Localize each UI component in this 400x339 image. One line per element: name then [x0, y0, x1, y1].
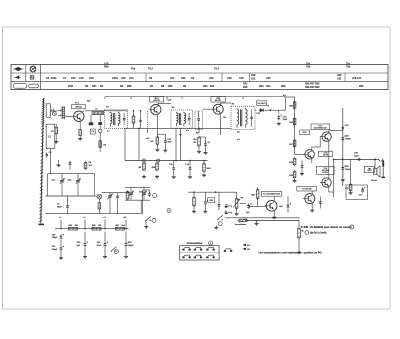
- symbol diode bowtie: [13, 67, 23, 71]
- svg-text:HPout: HPout: [371, 179, 377, 182]
- capacitor below node: [341, 159, 352, 181]
- symbol capacitor row2: [30, 75, 35, 79]
- svg-text:1k5: 1k5: [122, 225, 125, 227]
- resistor ladder low1: [289, 157, 296, 167]
- svg-text:AF125: AF125: [75, 105, 82, 108]
- svg-text:C31: C31: [337, 78, 342, 81]
- transistor T1.6: [305, 150, 314, 159]
- wire left column down: [50, 124, 58, 174]
- svg-text:C13: C13: [89, 77, 94, 80]
- capacitor C34: [77, 232, 88, 259]
- svg-text:AC127&AC132: AC127&AC132: [314, 126, 327, 129]
- capacitor C1 39pF: [57, 196, 69, 214]
- bottom tuning bus: [45, 213, 141, 215]
- transistor T1.1 label: [72, 102, 86, 108]
- resistor R25 ladder: [289, 117, 296, 127]
- resistor R5 under T1.2: [151, 126, 160, 152]
- svg-text:2k2: 2k2: [193, 139, 196, 141]
- contact glyph 5: [194, 257, 196, 258]
- transistor T1.8 label: [317, 166, 335, 174]
- thermistor on bus: [235, 218, 249, 226]
- svg-text:C16: C16: [121, 77, 126, 80]
- mid bus hanging C16: [169, 161, 176, 179]
- header row2 labels: [46, 74, 362, 80]
- capacitor C32: [124, 232, 134, 259]
- resistor R38b: [251, 187, 259, 206]
- legend PO GO: [244, 244, 251, 251]
- svg-text:4,5: 4,5: [237, 131, 240, 134]
- components between can1 and T1.2: [132, 111, 147, 129]
- svg-text:L26-L27: L26-L27: [352, 77, 362, 80]
- svg-text:R10: R10: [203, 85, 208, 88]
- transistor T1.7: [320, 132, 335, 141]
- svg-text:R35: R35: [69, 225, 72, 227]
- transistor T1.1: [74, 111, 84, 121]
- boxlabel C4: [90, 129, 95, 134]
- micro jack glyphs: [225, 204, 232, 213]
- output node vertical: [333, 159, 334, 197]
- svg-text:OC75: OC75: [323, 155, 329, 157]
- oscillator node circle: [95, 194, 102, 213]
- svg-text:R38: R38: [127, 85, 132, 88]
- bus under T1.4: [225, 213, 300, 218]
- mid bus hanging R42: [202, 161, 211, 177]
- note text line2: [305, 231, 327, 235]
- svg-text:39pF: 39pF: [57, 206, 63, 208]
- speaker label box: [365, 167, 375, 173]
- svg-text:PO8: PO8: [68, 85, 74, 88]
- svg-text:R9: R9: [196, 133, 198, 135]
- svg-text:T5.2: T5.2: [214, 68, 219, 71]
- transistor T1.7 label: [311, 124, 330, 130]
- decoupling resistor 1: [67, 225, 79, 230]
- svg-text:4k7: 4k7: [146, 137, 149, 140]
- main wire y111: [85, 110, 127, 112]
- tuning bus mid: [0, 0, 1, 1]
- value labels sprinkle: [106, 103, 270, 144]
- svg-text:C15a: C15a: [51, 77, 57, 80]
- switch with circle right: [214, 215, 223, 229]
- resistor R39: [297, 227, 303, 254]
- note text line1: [301, 225, 354, 229]
- top supply rail: [105, 97, 286, 100]
- wire T1.2 emitter down: [156, 114, 158, 126]
- boxlabel R30: [300, 130, 310, 135]
- decoupling resistor 2: [90, 225, 102, 230]
- label 5uF near T1.2: [166, 97, 172, 102]
- symbol diode small row2: [14, 76, 20, 79]
- wire can2 to T1.3: [203, 108, 213, 110]
- transistor T1.8: [322, 178, 331, 187]
- components below output: [345, 159, 368, 199]
- svg-text:R37: R37: [92, 85, 97, 88]
- svg-text:AF126: AF126: [153, 99, 160, 102]
- header row3 labels: [68, 83, 364, 90]
- second trimmer bank: [125, 187, 150, 213]
- output rail x342.8: [342, 108, 344, 186]
- transistor T1.2 label: [149, 97, 163, 102]
- IF can bottom bus: [125, 127, 231, 129]
- svg-text:0,1: 0,1: [208, 142, 211, 144]
- mid bus hanging R6: [139, 162, 146, 179]
- resistor R40 row: [194, 136, 201, 154]
- transistor T1.9 label: [297, 186, 317, 191]
- contact glyph 1: [183, 249, 185, 250]
- svg-text:R40: R40: [168, 85, 173, 88]
- header table frame: [11, 65, 388, 90]
- svg-text:C10: C10: [79, 77, 84, 80]
- wire drops from IF stages: [125, 128, 199, 160]
- wire with arrow mid: [180, 128, 182, 160]
- node x100: [99, 115, 102, 152]
- capacitor 5uF out: [279, 197, 291, 213]
- svg-text:10µF: 10µF: [354, 155, 360, 157]
- transistor T1.3 label: [211, 97, 225, 102]
- node output: [342, 159, 343, 160]
- component under node: [99, 139, 107, 149]
- wire T1.7 emitter chain: [329, 140, 334, 192]
- ladder rail x294.6: [294, 97, 296, 155]
- connector strip ground bar: [38, 222, 44, 224]
- wire T1.6 leads: [295, 137, 321, 163]
- wire top to output rail: [295, 96, 343, 98]
- svg-text:Les commutateurs sont représen: Les commutateurs sont représentés : posi…: [259, 252, 323, 255]
- contact glyph 4: [183, 257, 185, 258]
- wire to T1.4 base: [249, 205, 266, 207]
- svg-text:R39 : de 6k8à10k pour obtenir: R39 : de 6k8à10k pour obtenir un courant: [304, 226, 352, 229]
- antenna coil L1: [45, 104, 54, 117]
- loudspeaker: [371, 159, 380, 182]
- svg-text:AC117: AC117: [322, 171, 328, 174]
- supply stub labels: [59, 216, 128, 229]
- svg-text:100µF: 100µF: [345, 138, 352, 140]
- svg-text:T1.9 AC128: T1.9 AC128: [302, 187, 312, 190]
- decoupling resistor 3: [114, 225, 126, 230]
- wire bus2 to bus3: [48, 174, 95, 196]
- wire D1 to node: [265, 109, 286, 111]
- ferrite tuning coil: [58, 106, 65, 119]
- svg-text:R31: R31: [209, 200, 212, 202]
- capacitor C28: [341, 136, 351, 142]
- boxlabel R31: [208, 198, 215, 203]
- svg-text:C17: C17: [170, 77, 175, 80]
- junction dots: [133, 110, 221, 162]
- capacitor C20 row: [199, 137, 208, 154]
- small caps right of ladder: [300, 161, 304, 176]
- wire T1.9 leads: [310, 191, 314, 212]
- coil L2 box: [45, 124, 54, 148]
- wire T1.1 collector: [82, 111, 84, 113]
- capacitor after T1.9: [319, 197, 322, 209]
- capacitor with circled node: [143, 190, 157, 215]
- resistor ladder low2: [289, 158, 296, 182]
- capacitor C30 series: [354, 153, 362, 161]
- svg-text:125µF: 125µF: [52, 237, 58, 239]
- transistor T1.9: [303, 194, 315, 204]
- wire T1.1 emitter: [79, 121, 81, 128]
- svg-text:C21: C21: [251, 78, 256, 81]
- circled P lower: [167, 209, 171, 213]
- mid bus hanging C19: [185, 161, 192, 179]
- diode D1: [259, 109, 265, 111]
- contact glyph 6: [207, 257, 209, 258]
- resistor R3 under T1.1: [78, 128, 82, 140]
- wire tuning top link: [102, 192, 128, 197]
- capacitor C small: [218, 192, 221, 210]
- svg-text:GO: GO: [247, 249, 251, 251]
- contact glyph outside: [224, 250, 226, 251]
- contact glyph 3: [207, 249, 209, 250]
- transistor T1.3: [213, 104, 223, 114]
- svg-text:T5b: T5b: [306, 65, 311, 68]
- capacitor C36: [52, 232, 64, 240]
- svg-text:R24: R24: [259, 85, 264, 88]
- svg-text:R11: R11: [210, 85, 215, 88]
- edge connector strip: [39, 98, 45, 222]
- svg-text:M3: M3: [232, 103, 235, 105]
- svg-text:R28 R34 R30: R28 R34 R30: [305, 86, 320, 89]
- svg-text:150: 150: [98, 225, 101, 227]
- wire cap to base: [251, 205, 266, 207]
- trimmer C6: [108, 193, 113, 214]
- wire T1.3 collector: [220, 103, 231, 106]
- svg-text:R36: R36: [92, 225, 95, 227]
- svg-text:T5.2: T5.2: [148, 68, 153, 71]
- svg-text:thermistance: thermistance: [235, 223, 246, 226]
- wire bottom center: [245, 220, 299, 227]
- items above tuning box: [57, 160, 92, 170]
- resistor R23 ladder: [289, 100, 296, 110]
- svg-text:Commutateur: Commutateur: [187, 242, 203, 245]
- symbol meter circle: [30, 65, 36, 72]
- capacitor C35: [52, 240, 64, 260]
- svg-text:10µF: 10µF: [283, 119, 289, 121]
- node circle antenna: [53, 112, 57, 116]
- svg-text:5µF: 5µF: [168, 100, 172, 102]
- capacitor C pol: [203, 192, 208, 213]
- wire T1.7 leads: [329, 130, 343, 133]
- volume pot P1: [233, 192, 244, 215]
- wire can1 to T1.2: [150, 109, 153, 111]
- trimmer C3b: [68, 174, 81, 189]
- svg-text:D1 OA70: D1 OA70: [258, 102, 266, 105]
- wire can3 out: [255, 109, 256, 111]
- wire node to ladder: [283, 94, 295, 110]
- transistor T1.2: [151, 105, 161, 115]
- capacitor 5uF coupling: [240, 203, 252, 214]
- output wire horizontal: [334, 158, 379, 160]
- switch lower left: [144, 216, 156, 228]
- resistor right of tuning: [126, 190, 129, 213]
- svg-text:R37: R37: [116, 225, 119, 227]
- transistor T1.6 label: [319, 151, 333, 156]
- blob pad: [89, 123, 93, 125]
- transistor T1.4 label: [261, 191, 281, 196]
- svg-text:AF127: AF127: [215, 99, 222, 102]
- ground stub bottom: [255, 220, 259, 225]
- svg-text:C19: C19: [239, 77, 244, 80]
- transistor T1.4: [266, 200, 277, 211]
- svg-text:R32: R32: [359, 85, 364, 88]
- jack symbol: [379, 159, 385, 178]
- svg-text:C15: C15: [71, 77, 76, 80]
- coil L3 under wire: [92, 108, 104, 114]
- resistor R27 ladder: [289, 139, 296, 149]
- capacitor C25 small: [342, 125, 350, 131]
- svg-text:100µF: 100µF: [128, 245, 134, 247]
- svg-text:C14: C14: [129, 77, 134, 80]
- svg-text:M1: M1: [106, 107, 109, 109]
- bus y192: [188, 192, 237, 193]
- output node right: [374, 159, 376, 161]
- tuning bus3: [45, 195, 94, 197]
- svg-text:R4a: R4a: [266, 85, 271, 88]
- tuning bus top: [48, 173, 96, 175]
- trimmer C3a: [52, 174, 65, 189]
- wire drop x89: [90, 115, 92, 123]
- svg-text:220: 220: [75, 225, 78, 227]
- svg-text:100µF: 100µF: [52, 249, 58, 251]
- svg-text:R23: R23: [243, 86, 248, 89]
- drop to C22: [278, 110, 280, 113]
- IF transformer can 2: [171, 110, 193, 128]
- svg-text:(de 0,5 à 1mA): (de 0,5 à 1mA): [310, 232, 327, 235]
- commutateur title: [187, 241, 213, 245]
- contact glyph 2: [194, 249, 196, 250]
- svg-text:F5a: F5a: [131, 68, 136, 71]
- wire T1.4 leads: [272, 196, 276, 219]
- svg-text:R2b: R2b: [281, 85, 286, 88]
- svg-text:C18: C18: [227, 77, 232, 80]
- svg-text:T1.4 AC126&AC125: T1.4 AC126&AC125: [263, 192, 280, 195]
- symbol coil box row3 left: [13, 84, 27, 90]
- svg-text:PO: PO: [247, 245, 250, 247]
- IF transformer can 3: [231, 106, 255, 129]
- svg-text:T1.1: T1.1: [75, 102, 80, 104]
- connector box: [180, 246, 219, 260]
- capacitor C1a: [46, 152, 53, 158]
- wire T1.3 emitter: [219, 113, 221, 135]
- mid bus y160.5: [125, 160, 208, 162]
- mid bus hanging R38: [152, 162, 159, 179]
- power bus: [55, 228, 129, 230]
- header row1 labels: [104, 62, 351, 70]
- svg-text:C1b: C1b: [209, 77, 214, 80]
- wire T1.2 collector: [158, 103, 171, 106]
- capacitor C33: [97, 232, 108, 259]
- switch power: [111, 247, 119, 255]
- diode D1 label: [257, 101, 267, 106]
- power bus nodes: [60, 228, 126, 229]
- svg-text:T5b: T5b: [346, 65, 351, 68]
- svg-text:R5d: R5d: [104, 66, 109, 69]
- wire antenna to T1.1 base: [50, 111, 72, 116]
- IF transformer can 1: [105, 110, 128, 129]
- svg-text:1k2: 1k2: [89, 165, 92, 167]
- symbol coil box row3 right: [29, 84, 39, 88]
- svg-text:C21: C21: [223, 117, 226, 119]
- node after D1: [270, 110, 271, 111]
- capacitor C6b: [116, 193, 119, 214]
- svg-text:C20: C20: [181, 77, 186, 80]
- svg-text:47µF: 47µF: [97, 244, 102, 247]
- resistor R1: [51, 126, 58, 136]
- capacitor C22: [277, 115, 288, 126]
- svg-text:C23: C23: [256, 113, 259, 115]
- svg-text:M2: M2: [172, 107, 175, 109]
- resistor R13: [192, 192, 196, 213]
- svg-text:C25: C25: [266, 77, 271, 80]
- dashed box small: [195, 111, 203, 129]
- capacitor C15 under T1.2: [157, 134, 172, 152]
- svg-text:C15a: C15a: [112, 77, 118, 80]
- svg-text:2,5Ω: 2,5Ω: [367, 170, 372, 172]
